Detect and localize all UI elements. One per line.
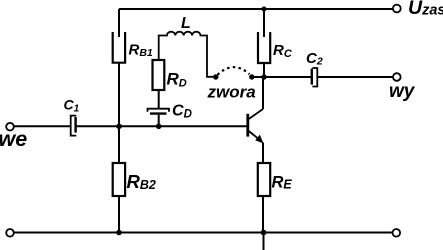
- wire RB2 bottom to ground rail: [118, 196, 120, 233]
- wire zwora right to collector node: [252, 76, 264, 78]
- svg-text:CD: CD: [172, 103, 192, 121]
- wire C2 to output terminal: [317, 76, 393, 78]
- node collector junction: [261, 74, 266, 79]
- capacitor C2: [312, 68, 318, 87]
- svg-text:RE: RE: [272, 174, 293, 192]
- jumper zwora dashed arc: [218, 67, 250, 75]
- svg-text:we: we: [0, 127, 27, 151]
- wire bottom ground rail: [14, 232, 393, 234]
- terminal bottom right open circle: [393, 229, 401, 237]
- node zwora right: [249, 74, 254, 79]
- node CD junction on base line: [156, 124, 162, 130]
- terminal we open circle: [6, 123, 14, 131]
- wire RB1 top lead: [118, 9, 120, 37]
- inductor L: [159, 32, 214, 77]
- svg-text:Uzas: Uzas: [408, 0, 443, 19]
- wire CD to base line: [158, 115, 160, 127]
- resistor RB1: [113, 32, 125, 63]
- wire collector node to C2: [264, 76, 311, 78]
- capacitor C1: [71, 116, 77, 136]
- wire RB2 top lead: [118, 126, 120, 163]
- wire ground stub below rail: [263, 233, 265, 250]
- svg-text:RB2: RB2: [127, 171, 156, 192]
- svg-text:C1: C1: [64, 97, 80, 115]
- svg-text:RB1: RB1: [129, 42, 153, 59]
- svg-text:RC: RC: [273, 42, 293, 60]
- wire collector vertical: [262, 77, 264, 109]
- wire base line C1 to transistor: [76, 125, 247, 127]
- capacitor CD: [148, 109, 170, 114]
- terminal bottom left open circle: [6, 229, 14, 237]
- wire emitter vertical: [262, 143, 264, 164]
- wire input to C1: [14, 125, 70, 127]
- wire RB1 bottom to base line: [118, 63, 120, 127]
- node top rail / RC junction: [262, 7, 267, 12]
- wire RD to CD: [158, 90, 160, 109]
- wire top supply rail: [119, 8, 393, 10]
- svg-text:C2: C2: [306, 50, 323, 68]
- node bottom rail left junction: [116, 230, 122, 236]
- svg-text:L: L: [181, 15, 191, 32]
- node zwora left: [213, 74, 218, 79]
- wire RE bottom to ground rail: [262, 196, 264, 233]
- svg-text:zwora: zwora: [207, 83, 256, 102]
- resistor RC: [258, 32, 270, 63]
- resistor RB2: [113, 163, 125, 196]
- transistor Q1: [248, 109, 264, 144]
- svg-text:RD: RD: [167, 70, 187, 90]
- resistor RE: [258, 163, 270, 196]
- wire RC top lead: [263, 9, 265, 37]
- wire RC bottom to collector node: [263, 63, 265, 77]
- node base line / RB divider: [116, 124, 122, 130]
- terminal Uzas open circle: [393, 5, 401, 13]
- terminal wy open circle: [393, 73, 401, 81]
- resistor RD: [153, 60, 165, 90]
- node bottom rail right junction: [261, 230, 267, 236]
- svg-text:wy: wy: [389, 81, 416, 102]
